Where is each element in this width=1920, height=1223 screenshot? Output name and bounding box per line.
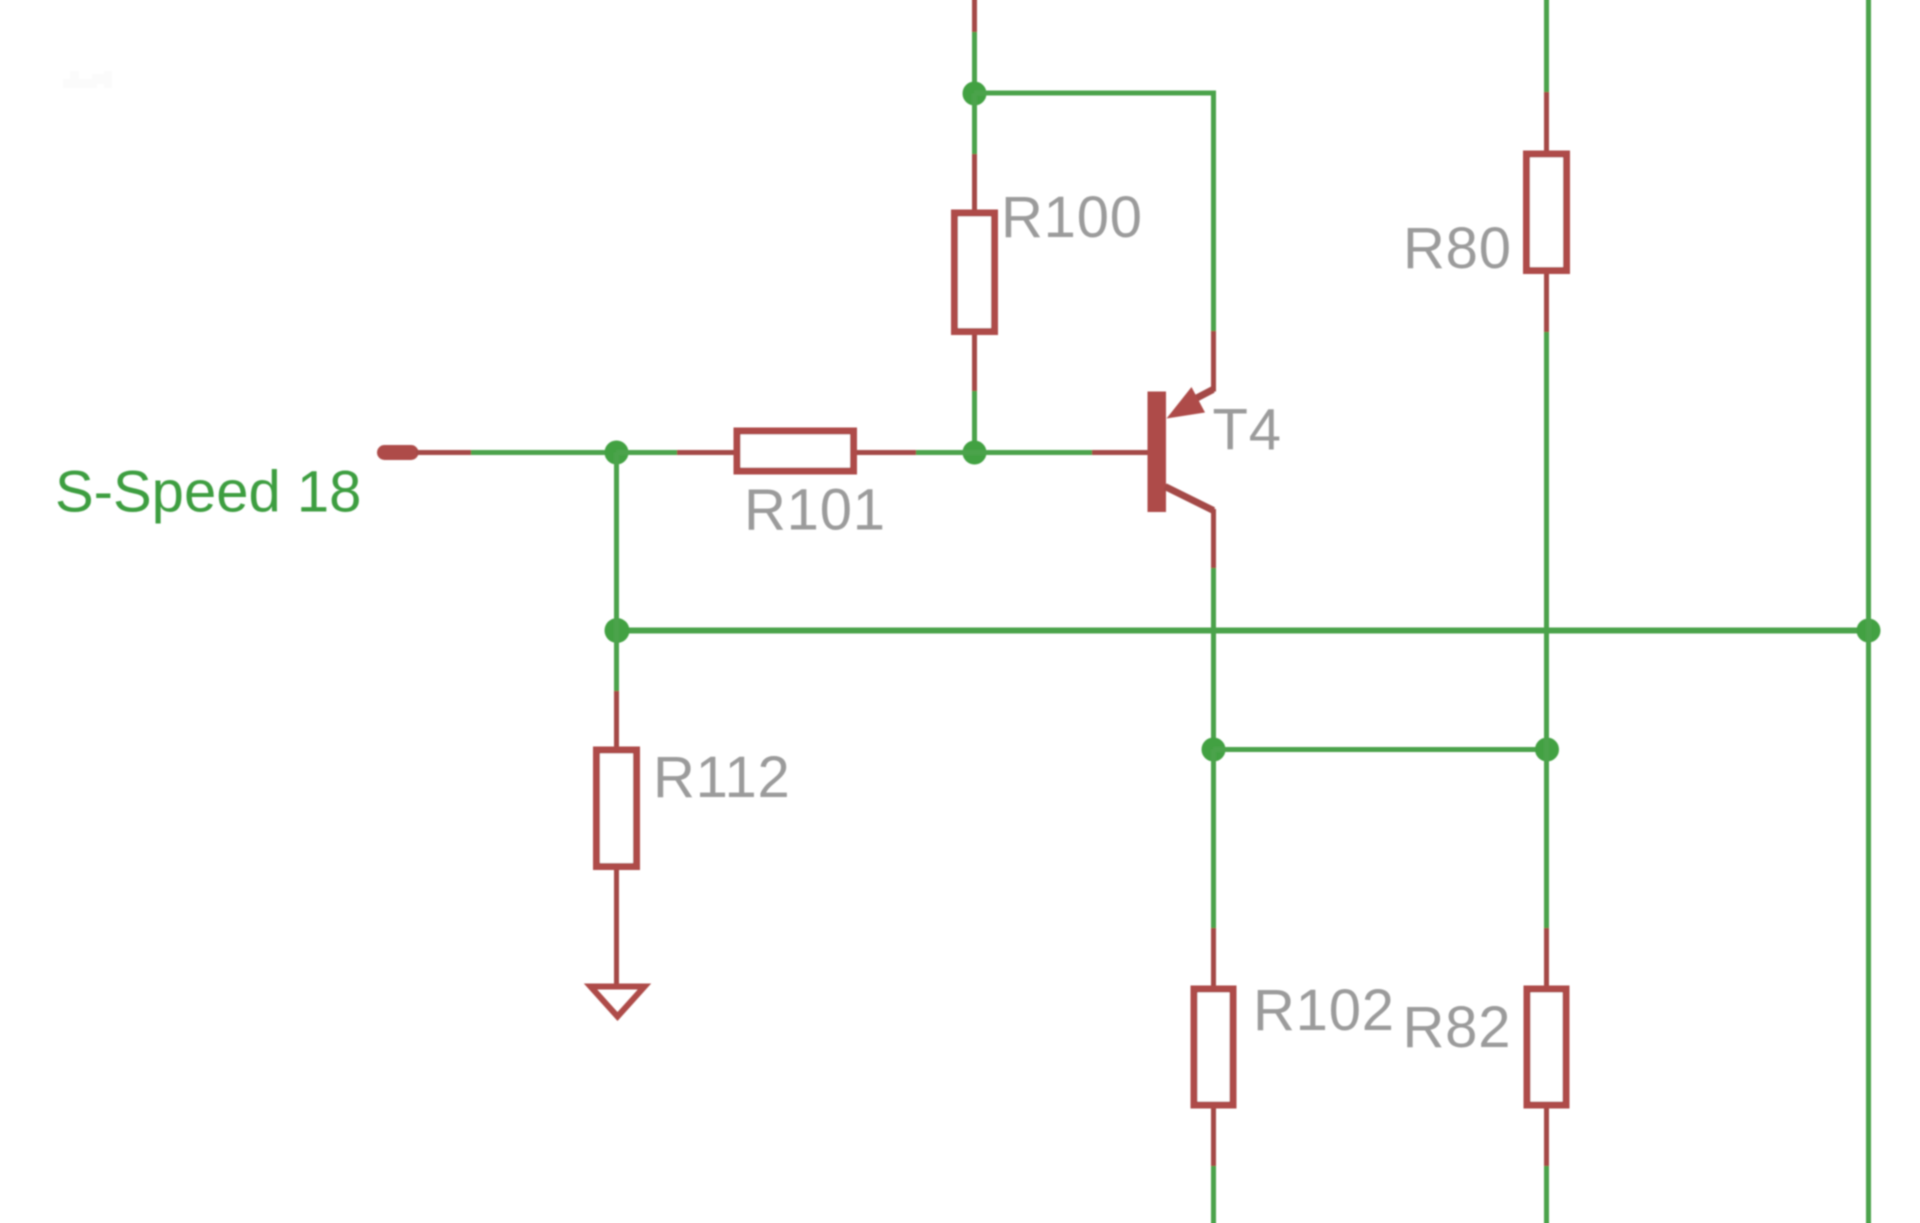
ground symbol: [591, 987, 645, 1017]
pin: R102 bottom red: [1211, 1109, 1216, 1167]
pin: T4 collector red: [1211, 509, 1216, 568]
wire: junction down to R102 green: [1211, 750, 1216, 929]
wire: R101 to T4 base green: [916, 450, 1092, 455]
transistor T4 collector diagonal: [1165, 487, 1214, 511]
svg-text:R112: R112: [653, 745, 791, 810]
pin: stub lead red: [416, 450, 471, 455]
resistor R102: [1194, 989, 1233, 1105]
wire: R82 bottom green to edge: [1544, 1166, 1549, 1223]
pin: R100 top red: [972, 154, 977, 212]
wire: junction to R100 green: [972, 94, 977, 155]
pin: T4 emitter upper red: [1211, 331, 1216, 392]
node: T4 collector junction: [1202, 738, 1226, 762]
svg-text:S-Speed 18: S-Speed 18: [55, 460, 361, 525]
node: junction at left of y630: [605, 618, 630, 643]
svg-text:R80: R80: [1403, 216, 1512, 281]
pin: R102 top red: [1211, 928, 1216, 988]
svg-text:T4: T4: [1213, 398, 1282, 463]
node: left junction: [605, 441, 629, 465]
pin: R82 top red: [1544, 928, 1549, 988]
wire: T4 collector down green: [1211, 568, 1216, 750]
resistor R80: [1527, 154, 1567, 271]
node: lower right junction: [1535, 738, 1559, 762]
wire: R102 bottom green to edge: [1211, 1166, 1216, 1223]
wire: horizontal between lower junctions: [1214, 747, 1548, 752]
pin: S-Speed stub: [385, 445, 412, 460]
wire: R80 down through junction green: [1544, 332, 1549, 928]
resistor R101: [737, 431, 854, 471]
wire: long horizontal net y630: [617, 628, 1869, 634]
pin: R101 right red: [857, 450, 916, 455]
wire: left junction to R101 green: [617, 450, 678, 455]
wire: emitter drop green: [1211, 91, 1216, 332]
wire: right vertical full height: [1866, 0, 1871, 1223]
node: junction right end y630: [1857, 619, 1881, 643]
transistor T4 base bar: [1148, 392, 1167, 513]
faint artifact top-left: [63, 71, 112, 88]
svg-text:R82: R82: [1403, 995, 1512, 1060]
transistor T4 emitter arrow: [1167, 387, 1206, 419]
transistor T4 emitter diagonal: [1190, 390, 1213, 402]
wire: stub to left junction green: [471, 450, 617, 455]
wire: net segment into top junction: [972, 32, 977, 95]
node: top junction: [963, 82, 987, 106]
svg-text:R102: R102: [1253, 978, 1395, 1043]
wire: R80 top net green: [1544, 0, 1549, 92]
resistor R100: [955, 213, 995, 332]
wire: y630 junction down green: [614, 631, 619, 692]
pin: R101 left red: [677, 450, 735, 455]
pin: R80 top red: [1544, 92, 1549, 153]
svg-text:R101: R101: [744, 478, 886, 543]
pin: R100 bottom red: [972, 335, 977, 391]
wire: R100 to base junction green: [972, 391, 977, 453]
pin: R112 top red: [614, 691, 619, 749]
pin: T4 base red: [1092, 450, 1148, 455]
pin: R80 bottom red: [1544, 274, 1549, 332]
wire: R112 bottom to ground red: [614, 870, 619, 984]
svg-text:R100: R100: [1001, 185, 1143, 250]
pin: R82 bottom red: [1544, 1109, 1549, 1167]
wire: supply rail top red segment: [972, 0, 977, 34]
wire: top horizontal rail: [975, 91, 1214, 96]
node: base junction: [963, 441, 987, 465]
resistor R82: [1527, 989, 1566, 1105]
wire: left junction down to y630: [614, 453, 619, 631]
resistor R112: [597, 750, 637, 867]
